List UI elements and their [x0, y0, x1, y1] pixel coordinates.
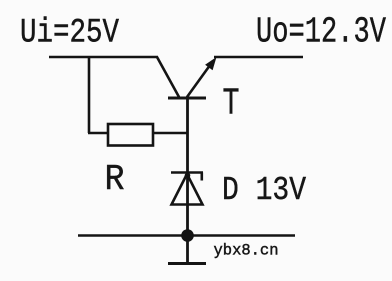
wire: resistor right to base lead — [153, 132, 188, 135]
transistor T collector line — [157, 57, 179, 97]
zener diode D cathode bar — [171, 171, 203, 174]
wire: to resistor left — [88, 132, 108, 135]
junction dot (node at ground rail) — [181, 229, 194, 242]
wire: input vertical drop — [88, 57, 91, 133]
resistor R — [108, 124, 153, 146]
wire: output horizontal — [214, 56, 303, 59]
transistor T base bar — [168, 97, 206, 100]
svg-text:T: T — [223, 83, 240, 126]
transistor T emitter line with arrow — [187, 61, 213, 97]
svg-text:ybx8.cn: ybx8.cn — [214, 242, 279, 260]
zener diode D cathode right hook — [201, 173, 204, 181]
zener diode D triangle — [172, 174, 203, 205]
ground terminal bar — [168, 262, 206, 265]
junction dot at diode apex — [185, 173, 191, 179]
wire: base lead vertical down through diode to ground — [186, 99, 189, 263]
wire: top input horizontal — [49, 56, 158, 59]
svg-text:Ui=25V: Ui=25V — [20, 15, 119, 53]
svg-text:R: R — [105, 159, 125, 200]
svg-text:Uo=12.3V: Uo=12.3V — [256, 12, 386, 53]
svg-text:D 13V: D 13V — [222, 172, 306, 209]
wire: bottom ground horizontal — [78, 234, 295, 237]
